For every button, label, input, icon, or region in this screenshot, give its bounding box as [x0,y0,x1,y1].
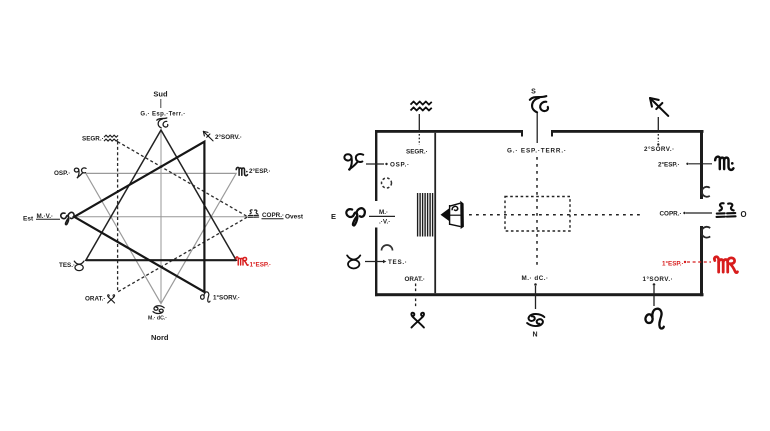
svg-text:1°SORV.·: 1°SORV.· [213,294,240,302]
earth trine bottom edge bold [86,259,236,261]
pisces glyph (large) [344,154,363,170]
svg-text:COPR.·: COPR.· [660,211,682,218]
svg-text:COPR.·: COPR.· [262,212,284,219]
right wall upper segment [700,130,703,199]
pisces glyph (small) [74,168,86,178]
svg-text:SEGR.·: SEGR.· [406,149,428,156]
svg-text:2°ESP.·: 2°ESP.· [658,161,680,169]
svg-text:Sud: Sud [153,90,168,99]
svg-text:Est: Est [23,216,34,223]
column circle dashed on left wall [382,178,392,188]
svg-text:ORAT.·: ORAT.· [85,296,106,303]
svg-text:M.· dC.·: M.· dC.· [148,316,167,322]
wire segr [418,114,420,131]
air trine Aquarius-Libra-Gemini (dashed) [118,142,248,292]
red dashed wire [687,261,711,263]
capricorn glyph (large) [530,96,548,112]
axis Sud-Nord vertical [160,130,162,304]
svg-text:M.· dC.·: M.· dC.· [522,275,549,282]
wire 1sorv [653,286,655,306]
column arc on left wall lower [382,245,393,251]
left wall lower segment [375,228,377,297]
svg-text:Ovest: Ovest [285,214,304,221]
libra glyph (small) [248,210,258,217]
sagittarius arrow glyph (small) [203,131,213,141]
wire tes with arrow [365,261,383,263]
capricorn glyph (small) [157,118,168,128]
libra glyph (large) [717,203,736,217]
cancer glyph (large) [527,314,544,326]
wire Sud to G Esp Terr [160,99,162,108]
wire orat dashed [415,284,417,308]
svg-text:S: S [531,89,536,96]
earth trine Capricorn-Virgo-Taurus [86,130,236,260]
dashed altar rectangle center [505,197,570,232]
taurus glyph (large) [347,255,360,268]
svg-text:2°SORV.·: 2°SORV.· [215,133,242,141]
fire trine Aries-Sagittarius-Leo [74,142,204,292]
svg-text:1°ESP.·: 1°ESP.· [250,261,272,269]
top wall gap end ticks [521,130,523,137]
bottom wall [375,293,704,296]
throne icon (flag) [441,201,464,229]
virgo glyph red (large) [714,257,737,273]
column arc right wall upper [702,187,710,197]
svg-text:.·V.·: .·V.· [379,219,390,226]
inner east partition line [434,133,436,293]
scorpio glyph (large) [715,157,733,170]
scorpio glyph (small) [236,167,247,175]
taurus glyph (small) [74,261,84,271]
aries glyph (small) [61,212,74,224]
aquarius glyph (large) [411,101,432,110]
right wall lower segment [700,226,703,296]
water trine Pisces-Scorpio-Cancer [86,173,236,303]
svg-text:E: E [331,212,336,221]
aquarius glyph (small) [104,135,118,141]
svg-text:SEGR.·: SEGR.· [82,136,104,143]
dashed EW axis line [469,214,641,216]
svg-text:1°SORV.·: 1°SORV.· [643,275,674,283]
svg-text:2°ESP.·: 2°ESP.· [249,167,271,175]
axis Est-Ovest horizontal [74,216,248,218]
svg-text:O: O [741,210,747,219]
svg-text:M.·: M.· [379,209,388,216]
svg-text:TES.·: TES.· [388,259,408,266]
svg-text:OSP.·: OSP.· [390,162,410,169]
cancer glyph (small) [153,306,164,314]
svg-text:TES.·: TES.· [59,262,75,269]
wire osp [366,163,384,165]
left wall upper segment [375,130,377,201]
svg-text:1°ESP.·: 1°ESP.· [662,260,684,268]
leo glyph (large) [645,309,663,329]
wire S entrance [536,113,538,143]
column arc right wall lower [701,227,710,238]
svg-text:2°SORV.·: 2°SORV.· [644,145,675,153]
svg-text:G.· ESP.·TERR.·: G.· ESP.·TERR.· [507,148,567,155]
dashed NS axis line [536,157,538,268]
virgo glyph red (small) [236,257,248,265]
top wall left section [375,130,523,133]
leo glyph (small) [201,292,210,302]
sagittarius arrow (large) [650,98,668,116]
hatched dais block [418,193,433,237]
svg-text:ORAT.·: ORAT.· [405,276,426,283]
svg-text:N: N [533,332,538,339]
svg-text:G.· Esp.·Terr.·: G.· Esp.·Terr.· [140,112,185,118]
wire m dc [535,286,537,309]
gemini glyph (large) [411,313,424,328]
aries glyph (large) [346,208,364,225]
gemini glyph (small) [108,295,115,303]
wire 2sorv [657,117,659,132]
svg-text:OSP.·: OSP.· [54,170,70,177]
top wall right section [551,130,704,133]
svg-text:Nord: Nord [151,333,169,342]
